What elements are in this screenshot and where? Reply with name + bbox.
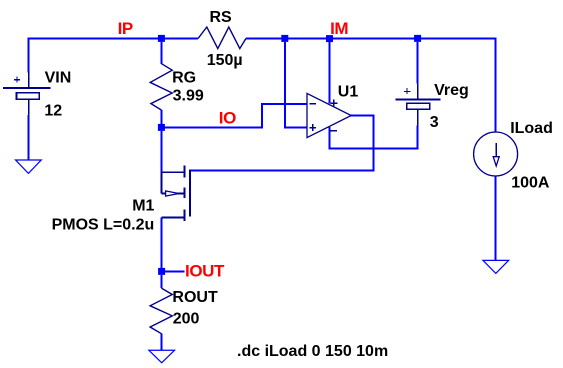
current source ILoad circle <box>474 132 518 176</box>
node IO junction square <box>158 124 165 131</box>
current source ILoad arrow shaft <box>495 143 497 157</box>
svg-text:12: 12 <box>44 103 62 120</box>
transistor M1 drain lead <box>161 217 183 219</box>
node IM junction square <box>326 35 333 42</box>
svg-text:3: 3 <box>430 114 439 131</box>
wire top rail left (IP net) <box>29 38 199 40</box>
wire VIN vertical bottom <box>28 115 30 160</box>
wire IOUT to ROUT <box>160 275 162 288</box>
battery Vreg plus sign <box>404 88 410 94</box>
wire opamp V- supply to Vreg negative <box>330 125 418 148</box>
wire RG bottom lead <box>160 110 162 124</box>
battery Vreg bottom lead <box>417 109 419 125</box>
transistor M1 source-bulk tie vertical <box>160 171 162 193</box>
wire top rail right (IM net) <box>246 38 495 40</box>
svg-text:IOUT: IOUT <box>185 262 225 281</box>
node junction square (Vreg tap) <box>414 35 421 42</box>
svg-text:RS: RS <box>210 9 233 26</box>
transistor M1 source contact bar <box>183 165 185 177</box>
node IOUT junction square <box>158 268 165 275</box>
svg-text:100A: 100A <box>511 175 550 192</box>
resistor RG zigzag <box>150 64 172 110</box>
wire RG top lead <box>160 42 162 64</box>
svg-text:IP: IP <box>118 19 133 38</box>
svg-text:VIN: VIN <box>45 69 72 86</box>
node junction square (opamp + input tap) <box>281 35 288 42</box>
wire IO to opamp inverting input <box>161 104 307 127</box>
svg-text:M1: M1 <box>132 197 154 214</box>
wire IO node down to M1 source <box>160 131 162 172</box>
svg-text:ILoad: ILoad <box>510 120 553 137</box>
resistor ROUT zigzag <box>150 288 172 334</box>
battery VIN plate <box>3 87 50 89</box>
svg-text:IM: IM <box>330 19 348 38</box>
resistor RS zigzag <box>198 27 246 49</box>
node IP junction square <box>158 35 165 42</box>
svg-text:IO: IO <box>219 109 236 128</box>
transistor M1 bulk lead <box>161 193 183 195</box>
transistor M1 drain contact bar <box>183 209 185 220</box>
current source ILoad arrow head <box>493 157 499 166</box>
wire Vreg positive to IM rail <box>417 42 419 84</box>
svg-text:200: 200 <box>173 311 200 328</box>
wire ILoad to ground <box>495 176 497 261</box>
battery VIN top lead <box>28 72 30 88</box>
svg-text:U1: U1 <box>338 84 359 101</box>
wire IM tap to opamp non-inverting input <box>285 42 307 127</box>
wire opamp V+ supply pin <box>329 42 331 104</box>
battery Vreg negative plate rect <box>407 103 430 109</box>
wire ROUT to ground <box>160 334 162 351</box>
transistor M1 bulk arrow head <box>166 191 179 196</box>
wire IM rail down right side to ILoad <box>495 38 497 133</box>
svg-text:PMOS L=0.2u: PMOS L=0.2u <box>52 216 155 233</box>
wire M1 drain down to IOUT <box>160 218 162 269</box>
ground (VIN) <box>16 160 42 173</box>
op-amp U1 V- supply minus glyph <box>330 130 337 132</box>
battery VIN plus sign <box>14 77 20 83</box>
transistor M1 source lead <box>161 171 183 173</box>
svg-text:Vreg: Vreg <box>434 82 469 99</box>
battery Vreg top lead <box>417 83 419 99</box>
svg-text:.dc iLoad 0 150 10m: .dc iLoad 0 150 10m <box>237 343 388 360</box>
wire IOUT label stub <box>165 270 184 272</box>
svg-text:150µ: 150µ <box>207 52 243 69</box>
battery VIN bottom lead <box>28 99 30 115</box>
op-amp U1 non-inverting input plus glyph <box>309 124 316 131</box>
transistor M1 gate line <box>189 170 191 217</box>
battery VIN negative plate rect <box>17 93 40 99</box>
ground (ILoad) <box>483 260 509 273</box>
ground (ROUT) <box>149 350 175 363</box>
op-amp U1 V+ supply plus glyph <box>330 100 337 107</box>
wire opamp output to M1 gate <box>190 116 373 171</box>
svg-text:ROUT: ROUT <box>172 289 218 306</box>
wire VIN vertical top <box>28 38 30 73</box>
op-amp U1 triangle <box>307 93 351 137</box>
transistor M1 bulk contact bar <box>183 187 185 198</box>
battery Vreg plate <box>395 98 440 100</box>
svg-text:3.99: 3.99 <box>173 88 204 105</box>
svg-text:RG: RG <box>172 70 196 87</box>
op-amp U1 inverting input minus glyph <box>310 103 316 105</box>
